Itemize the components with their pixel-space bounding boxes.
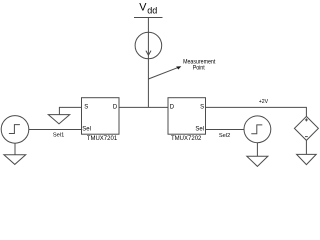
svg-text:V: V bbox=[139, 2, 147, 14]
svg-text:TMUX7201: TMUX7201 bbox=[87, 136, 118, 142]
svg-text:dd: dd bbox=[147, 6, 157, 16]
svg-text:Sel: Sel bbox=[82, 127, 91, 133]
svg-text:+2V: +2V bbox=[259, 99, 269, 105]
svg-text:TMUX7202: TMUX7202 bbox=[171, 136, 202, 142]
svg-text:D: D bbox=[113, 105, 118, 111]
svg-text:Sel1: Sel1 bbox=[53, 133, 64, 139]
svg-text:Sel2: Sel2 bbox=[219, 133, 230, 139]
svg-text:S: S bbox=[84, 105, 88, 111]
svg-text:Sel: Sel bbox=[195, 127, 204, 133]
svg-text:S: S bbox=[200, 105, 204, 111]
svg-text:D: D bbox=[170, 105, 175, 111]
svg-text:Point: Point bbox=[193, 65, 205, 72]
